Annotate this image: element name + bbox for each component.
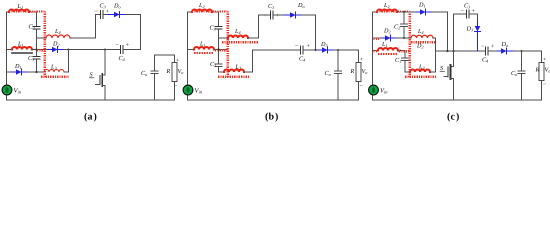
inductor L2	[377, 10, 397, 13]
wire L1 row left stub	[7, 49, 13, 51]
current path red dashed L1 row	[215, 49, 228, 51]
svg-text:R: R	[350, 68, 355, 75]
svg-text:): )	[275, 112, 278, 123]
diode D2	[48, 49, 64, 51]
node C2 top junction	[403, 11, 405, 13]
svg-text:): )	[456, 112, 459, 123]
node C3 drop junction	[452, 50, 454, 52]
wire L4 to C3 riser	[70, 15, 96, 39]
wire C3 left drop	[453, 14, 455, 51]
wire L4 row left stub	[219, 37, 229, 39]
capacitor Co	[518, 51, 525, 100]
resistor R	[174, 55, 176, 63]
wire left input rail	[6, 12, 8, 86]
svg-text:L1: L1	[17, 41, 24, 48]
wire left input rail	[187, 12, 189, 86]
capacitor C3	[101, 11, 104, 19]
wire C2 down lead	[218, 30, 220, 50]
wire bottom ground rail	[373, 99, 542, 101]
svg-text:Co: Co	[511, 70, 517, 77]
svg-text:L4: L4	[417, 28, 424, 35]
current path red dashed ladder vertical	[408, 11, 411, 77]
wire D0 to C4 drop	[126, 15, 141, 50]
inductor L4	[411, 35, 433, 38]
svg-text:+: +	[307, 44, 311, 50]
capacitor C2	[33, 27, 40, 30]
node D0 drop junction	[315, 49, 317, 51]
svg-text:S: S	[440, 65, 443, 72]
capacitor C3	[271, 11, 274, 19]
capacitor Co	[151, 55, 158, 100]
node C1 bottom junction	[35, 71, 37, 73]
inductor L1	[12, 47, 32, 49]
wire C3 to D0	[274, 14, 285, 16]
svg-text:Vo: Vo	[178, 68, 184, 75]
current path red dashed ladder vertical	[226, 11, 229, 77]
wire D2 to C4	[64, 49, 120, 51]
wire switch row	[436, 50, 486, 52]
wire C3 to D0	[104, 14, 109, 16]
current path red dashed under L3	[218, 76, 250, 78]
wire L2 row left stub	[188, 11, 193, 13]
core bar L1 red	[194, 52, 214, 54]
svg-text:): )	[94, 112, 97, 123]
current path red dashed top run	[192, 10, 228, 12]
diode D0	[108, 14, 126, 16]
current path red stub L1 row	[374, 50, 379, 52]
current path red dashed under L4	[222, 41, 258, 43]
node Co junction	[337, 49, 339, 51]
svg-text:−: −	[116, 43, 120, 49]
current path red dashed top run	[9, 10, 45, 12]
svg-text:C4: C4	[482, 57, 488, 64]
wire L3 riser to D2 row	[64, 50, 69, 73]
wire L3 right riser	[430, 71, 436, 73]
svg-text:L3: L3	[235, 64, 242, 71]
svg-text:−: −	[264, 13, 268, 19]
svg-text:−: −	[481, 44, 485, 50]
transistor S gate lead	[444, 76, 448, 78]
svg-text:a: a	[88, 112, 93, 123]
svg-text:C1: C1	[210, 61, 216, 68]
output loop top rail	[155, 54, 175, 56]
resistor R	[541, 51, 543, 63]
svg-text:D1: D1	[14, 63, 22, 70]
svg-text:L4: L4	[54, 28, 61, 35]
svg-text:L2: L2	[383, 2, 390, 9]
transistor S source wire	[102, 86, 105, 101]
wire L3 riser to C4 row	[244, 50, 253, 72]
svg-text:+: +	[360, 57, 364, 63]
capacitor C1 plates	[33, 57, 40, 60]
wire D3 to output	[334, 49, 359, 51]
svg-text:Vo: Vo	[362, 68, 368, 75]
wire left rail below source	[187, 95, 189, 101]
diode D3 vertical	[477, 20, 479, 51]
svg-text:D2: D2	[383, 28, 391, 35]
wire C2 down lead	[36, 30, 38, 73]
wire L2 to D1	[397, 11, 416, 13]
inductor L2	[192, 10, 212, 13]
capacitor C2 vertical	[401, 12, 408, 38]
wire bottom ground rail	[188, 99, 359, 101]
wire D1 row left stub	[7, 71, 13, 73]
inductor L1	[378, 48, 398, 51]
wire D2 row left stub	[373, 37, 382, 39]
wire C3 row left	[96, 14, 101, 16]
wire C4 to D3	[304, 49, 319, 51]
current path red stub D2 row	[374, 38, 380, 40]
svg-text:C1: C1	[28, 55, 34, 62]
inductor L3	[410, 70, 430, 73]
diode D0	[284, 14, 302, 16]
svg-text:+: +	[176, 58, 180, 64]
svg-text:−: −	[295, 44, 299, 50]
svg-text:Vin: Vin	[14, 88, 22, 95]
wire L1 row left stub	[373, 50, 379, 52]
wire L4 right to L3 riser	[433, 38, 436, 72]
svg-text:C3: C3	[464, 3, 470, 10]
transistor S mosfet body	[450, 65, 452, 79]
diode D3	[318, 49, 334, 51]
node L1 junction dot	[218, 49, 220, 51]
transistor S gate bar	[447, 67, 449, 77]
source Vin	[2, 85, 12, 95]
svg-text:C4: C4	[299, 56, 305, 63]
svg-text:D3: D3	[466, 26, 474, 33]
wire left input rail	[372, 12, 374, 86]
inductor L4	[228, 36, 248, 39]
svg-text:L1: L1	[381, 41, 388, 48]
svg-text:L1: L1	[199, 41, 206, 48]
current path red dashed ladder vertical	[43, 11, 46, 77]
svg-text:D3: D3	[320, 41, 328, 48]
wire C4 row left	[253, 49, 301, 51]
svg-text:Co: Co	[141, 70, 147, 77]
svg-text:Vin: Vin	[380, 88, 388, 95]
wire D1 to L3	[28, 71, 44, 73]
svg-text:Vin: Vin	[195, 88, 203, 95]
transistor S gate bar	[99, 76, 101, 85]
resistor R	[358, 50, 360, 63]
capacitor C3	[467, 10, 470, 18]
svg-text:Co: Co	[325, 70, 331, 77]
svg-text:Do: Do	[113, 3, 121, 10]
svg-text:L2: L2	[198, 2, 205, 9]
source Vin	[369, 85, 379, 95]
current path red dashed under L3	[405, 76, 436, 78]
svg-text:b: b	[269, 112, 275, 123]
transistor S gate lead	[96, 84, 100, 86]
node L1 junction dot	[399, 50, 401, 52]
transistor S source wire	[451, 79, 454, 101]
core bar L1	[12, 52, 32, 54]
node C1 junction dot	[217, 48, 219, 50]
svg-text:D2: D2	[416, 43, 424, 50]
svg-text:L4: L4	[234, 28, 241, 35]
wire L2 to C2 jog	[212, 12, 219, 26]
diode D2	[381, 37, 397, 39]
wire C3 to D3 corner	[470, 14, 478, 20]
svg-text:Do: Do	[297, 2, 305, 9]
wire D2 to L4	[397, 37, 411, 39]
svg-text:C1: C1	[395, 57, 401, 64]
wire C4 to D0	[489, 50, 498, 52]
svg-text:Do: Do	[501, 41, 509, 48]
svg-text:−: −	[360, 84, 364, 90]
svg-text:L3: L3	[418, 64, 425, 71]
wire left rail below source	[372, 95, 374, 101]
wire L4 row left stub	[37, 37, 47, 39]
wire L2 row left stub	[373, 11, 378, 13]
svg-text:−: −	[543, 82, 547, 88]
svg-text:+: +	[491, 44, 495, 50]
capacitor C1 vertical	[215, 50, 224, 73]
inductor L4	[46, 35, 70, 38]
diode D1	[12, 71, 28, 73]
svg-text:+: +	[276, 13, 280, 19]
inductor L3	[224, 70, 244, 73]
svg-text:D2: D2	[52, 41, 60, 48]
current path red dashed under L3	[41, 76, 69, 78]
svg-text:R: R	[535, 67, 540, 74]
node Co junction	[521, 50, 523, 52]
core bar L1 red	[378, 53, 398, 55]
wire D0 to output	[514, 50, 542, 52]
svg-text:C2: C2	[394, 24, 400, 31]
svg-text:C2: C2	[210, 25, 216, 32]
wire L1 to C1	[398, 50, 405, 52]
node L3 riser junction	[68, 49, 70, 51]
node switch junction	[104, 49, 106, 51]
transistor S drain	[451, 51, 454, 67]
svg-text:C4: C4	[119, 55, 125, 62]
wire L1 row left stub	[188, 49, 195, 51]
capacitor C2	[215, 27, 222, 30]
svg-text:c: c	[451, 112, 456, 123]
svg-text:C3: C3	[268, 3, 274, 10]
svg-text:R: R	[166, 68, 171, 75]
inductor L3	[44, 70, 64, 73]
svg-text:L3: L3	[50, 64, 57, 71]
svg-text:−: −	[174, 84, 178, 90]
wire L1 to node	[214, 49, 227, 51]
diode D0	[497, 50, 514, 52]
current path red dashed L1 row	[399, 50, 410, 52]
current path red dashed top run	[377, 10, 410, 12]
capacitor C4	[301, 46, 304, 54]
diode D1 top	[416, 11, 432, 13]
transistor S drain wire	[102, 50, 105, 76]
wire C3 row	[454, 13, 467, 15]
wire L2 to C2 jog	[29, 12, 37, 26]
current path red dashed under L4	[411, 41, 436, 43]
svg-text:Vo: Vo	[545, 67, 550, 74]
capacitor C1 vertical	[402, 51, 411, 73]
svg-text:+: +	[543, 57, 547, 63]
capacitor Co	[335, 50, 342, 100]
svg-text:C2: C2	[29, 24, 35, 31]
capacitor C4	[486, 47, 489, 55]
source Vin	[183, 85, 193, 95]
capacitor C4	[121, 46, 124, 54]
wire C3 row left	[259, 14, 271, 16]
node L1 junction dot	[35, 48, 37, 50]
svg-text:L2: L2	[17, 3, 24, 10]
wire L4 to C3 riser	[248, 15, 259, 38]
node C2 bottom junction	[403, 37, 405, 39]
svg-text:D1: D1	[418, 2, 426, 9]
inductor L1	[194, 47, 214, 49]
svg-text:+: +	[126, 43, 130, 49]
svg-text:S: S	[90, 72, 93, 79]
wire D1 to drop	[432, 12, 448, 51]
wire D0 to C4 drop	[302, 15, 316, 50]
wire left rail below source	[6, 95, 8, 101]
wire bottom ground rail	[7, 99, 175, 101]
current path red dashed L1 row	[37, 49, 45, 51]
wire C4 right lead	[124, 49, 141, 51]
wire L2 row left stub	[7, 11, 10, 13]
wire L1 to node	[32, 49, 48, 51]
node D1 drop junction	[446, 50, 448, 52]
transistor S mosfet body	[101, 74, 103, 86]
inductor L2	[9, 10, 29, 13]
